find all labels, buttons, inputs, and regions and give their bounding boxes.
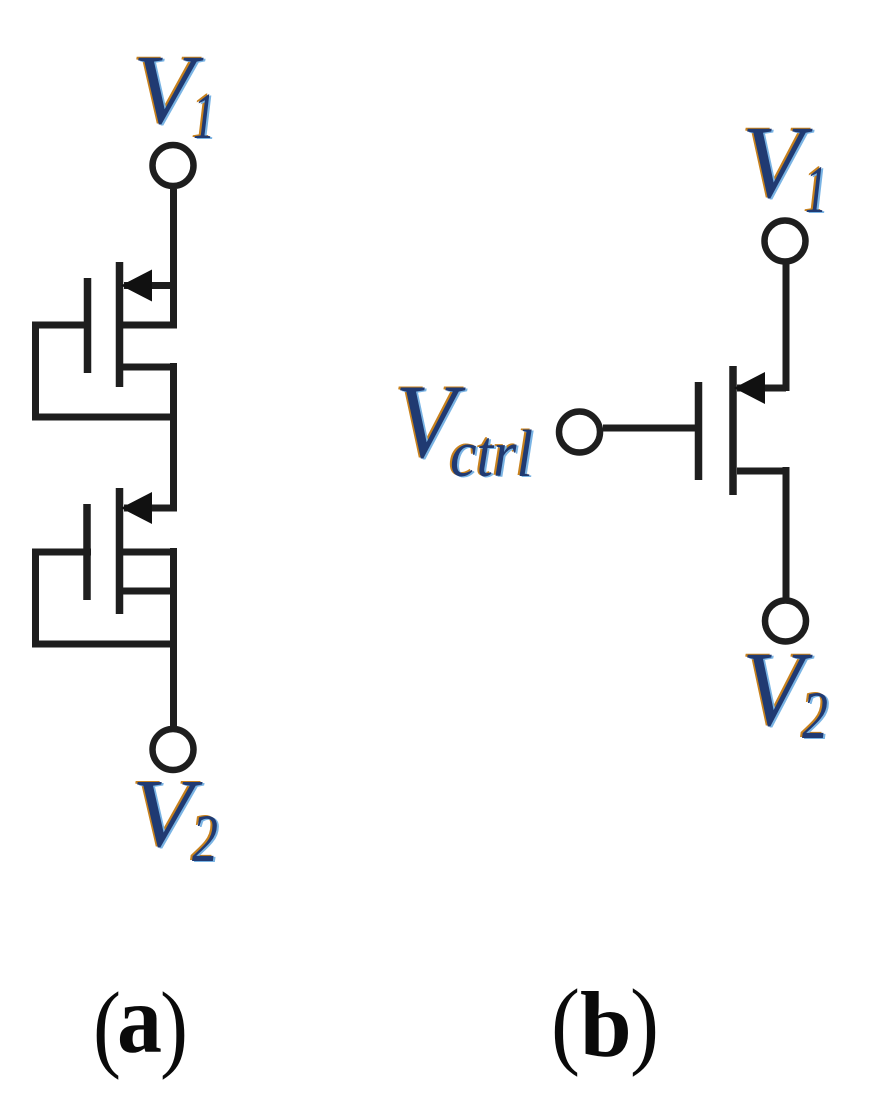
node label V2 (b): V — [740, 630, 815, 750]
svg-text:(: ( — [551, 970, 580, 1078]
transistor M1 gate bar — [84, 278, 92, 373]
transistor M2 gate bar — [83, 504, 91, 600]
node label V2 (a): subscript 2 — [190, 799, 220, 877]
transistor M3 gate lead from Vctrl — [603, 425, 702, 432]
svg-text:2: 2 — [802, 677, 828, 753]
terminal circle Vctrl (b) — [559, 412, 600, 453]
terminal circle V1 (a) — [153, 145, 194, 186]
wire V1 to M3 drain — [783, 264, 790, 391]
svg-text:): ) — [630, 970, 659, 1078]
transistor M2 drain stub — [123, 588, 174, 595]
wire M2 drain down to V2 — [170, 548, 177, 727]
transistor M3 arrow stub (source, arrow into channel) — [737, 385, 786, 392]
terminal circle V1 (b) — [765, 221, 806, 262]
transistor M2 arrow stub (source, arrow into channel) — [124, 505, 174, 512]
svg-text:a: a — [117, 966, 162, 1074]
caption (b) — [551, 970, 659, 1078]
transistor M3 drain stub — [737, 468, 786, 475]
caption (a) — [93, 966, 188, 1081]
node label Vctrl (b): V — [393, 362, 468, 481]
svg-text:ctrl: ctrl — [450, 417, 533, 491]
terminal circle V2 (a) — [153, 729, 194, 770]
wire M1 gate-drain wrap (diode connection) — [36, 322, 178, 418]
wire V1 to M1 drain — [170, 189, 177, 328]
node label V1 (a): subscript 1 — [191, 79, 217, 154]
terminal circle V2 (b) — [765, 601, 806, 642]
wire M2 gate-drain wrap (diode connection) — [36, 549, 178, 645]
transistor M1 drain stub — [123, 364, 174, 371]
transistor M1 bulk stub — [123, 322, 177, 329]
node label V1 (a): V — [131, 33, 206, 146]
node label Vctrl (b): subscript ctrl — [448, 416, 535, 492]
svg-text:): ) — [160, 973, 188, 1081]
svg-text:b: b — [580, 974, 632, 1077]
transistor M1 channel bar — [116, 262, 124, 387]
wire M3 drain down to V2 — [783, 467, 790, 600]
transistor M3 channel bar — [729, 366, 737, 495]
node label V2 (a): V — [130, 759, 205, 869]
transistor M3 gate bar — [695, 382, 703, 480]
transistor M2 channel bar — [116, 488, 124, 614]
svg-text:2: 2 — [192, 800, 218, 876]
wire M1 drain down — [170, 363, 177, 512]
transistor M1 arrow stub (source, arrow into channel) — [124, 282, 174, 289]
node label V2 (b): subscript 2 — [800, 676, 830, 754]
transistor M2 gate lead — [32, 549, 91, 556]
transistor M1 gate lead — [32, 322, 91, 329]
node label V1 (b): subscript 1 — [803, 150, 829, 228]
svg-text:1: 1 — [193, 80, 215, 153]
node label V1 (b): V — [740, 104, 815, 221]
svg-text:1: 1 — [805, 151, 827, 227]
transistor M2 bulk stub — [123, 549, 177, 556]
